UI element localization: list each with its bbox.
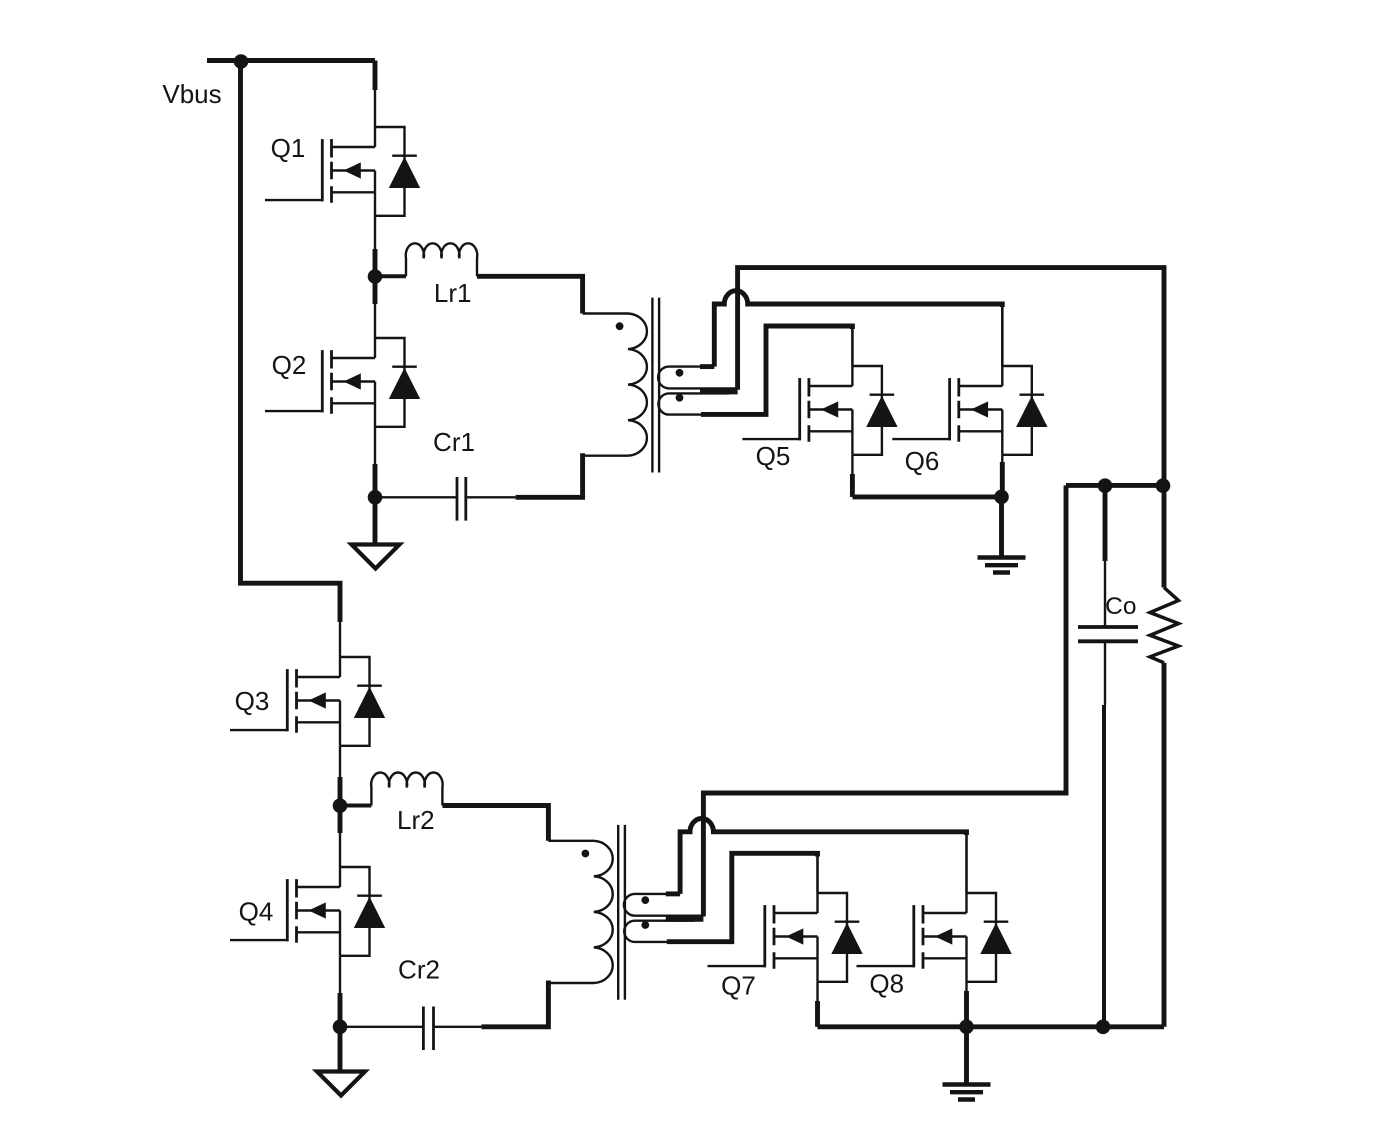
- wire Q1 drain feed: [373, 61, 378, 91]
- capacitor Cr2: [423, 1007, 433, 1051]
- node T2 primary dot: [582, 850, 590, 858]
- wire T1 center tap stub: [700, 389, 738, 394]
- svg-text:Lr1: Lr1: [434, 278, 472, 308]
- ground secondary 1: [999, 497, 1004, 556]
- node output minus rail ground junction: [959, 1020, 974, 1035]
- capacitor Cr1: [457, 477, 466, 521]
- svg-text:Cr1: Cr1: [433, 427, 475, 457]
- wire Vbus top rail: [207, 58, 375, 63]
- wire Lr2 to T2 primary top: [442, 806, 548, 841]
- inductor Lr2: [340, 804, 371, 808]
- transistor Q2: [265, 338, 420, 427]
- ground phase2: [338, 1027, 343, 1072]
- wire Q3 source to phase2 midpoint: [339, 746, 341, 867]
- node output minus rail Co junction: [1096, 1020, 1111, 1035]
- transistor Q7: [708, 893, 863, 982]
- node secondary rail 1 junction: [994, 490, 1009, 505]
- svg-text:Q5: Q5: [756, 441, 791, 471]
- svg-text:Cr2: Cr2: [398, 955, 440, 985]
- node phase1 midpoint: [368, 269, 383, 284]
- transformer T2 core: [618, 825, 625, 1000]
- wire T1 center tap to output plus rail: [738, 268, 1164, 486]
- wire T2 top terminal to Q8 drain (with hop): [680, 818, 966, 893]
- resistor load: [1162, 485, 1167, 587]
- wire T2 secondary top stub: [666, 891, 680, 896]
- transformer T2 secondary winding lower: [624, 921, 732, 942]
- node Vbus junction: [234, 54, 249, 69]
- wire Vbus left vertical down to lower half-bridge: [241, 61, 341, 623]
- capacitor Co: [1103, 485, 1108, 561]
- transformer T1 core: [652, 298, 659, 473]
- svg-text:Q2: Q2: [272, 350, 307, 380]
- wire Q2 source down to ground junction: [374, 427, 376, 498]
- node output rail load tap: [1156, 478, 1171, 493]
- node T2 secondary dot lower: [641, 921, 649, 929]
- node phase2 midpoint: [333, 798, 348, 813]
- svg-text:Q1: Q1: [271, 133, 306, 163]
- svg-text:Co: Co: [1105, 593, 1136, 620]
- wire T1 secondary top stub: [700, 364, 714, 369]
- svg-text:Q7: Q7: [721, 971, 756, 1001]
- wire output rail down to T2 center tap: [703, 485, 1066, 916]
- wire Q7 source to output minus rail: [816, 982, 818, 1027]
- ground phase1: [373, 497, 378, 546]
- transistor Q3: [230, 657, 385, 746]
- wire Q6 source stub: [1001, 455, 1003, 486]
- node T2 secondary dot upper: [641, 896, 649, 904]
- wire T2 primary bottom to Cr2: [481, 981, 548, 1027]
- wire Q5 source to secondary ground rail: [851, 455, 853, 497]
- node T1 primary dot: [616, 322, 624, 330]
- wire T1 primary bottom to Cr1: [516, 453, 583, 497]
- transformer T1 primary winding: [583, 314, 647, 456]
- wire Q8 source stub: [965, 982, 967, 1015]
- transistor Q4: [230, 867, 385, 956]
- ground secondary 2: [964, 1027, 969, 1084]
- svg-text:Q6: Q6: [905, 446, 940, 476]
- inductor Lr1: [375, 274, 406, 278]
- wire Cr1 to Q2 source junction: [375, 496, 457, 498]
- svg-text:Vbus: Vbus: [162, 79, 221, 109]
- node Cr1 junction: [368, 490, 383, 505]
- wire secondary ground rail 1: [852, 494, 1001, 499]
- svg-text:Q8: Q8: [869, 969, 904, 999]
- wire Q3 drain feed: [339, 622, 341, 657]
- transformer T1 secondary winding upper: [658, 367, 738, 389]
- wire Cr2 to Q4 source junction: [340, 1026, 423, 1028]
- wire output plus rail: [1066, 483, 1164, 488]
- wire T1 bottom terminal to Q5 drain: [701, 326, 852, 414]
- transistor Q6: [892, 366, 1047, 455]
- wire T1 top terminal to Q6 drain (with hop): [714, 291, 1002, 367]
- transformer T2 secondary winding upper: [624, 894, 704, 916]
- transformer T2 primary winding: [548, 841, 612, 983]
- node T1 secondary dot lower: [676, 394, 684, 402]
- transformer T1 secondary winding lower: [658, 393, 766, 414]
- svg-text:Q4: Q4: [239, 897, 274, 927]
- wire T2 bottom terminal to Q7 drain: [667, 853, 818, 941]
- wire Lr1 to T1 primary top: [477, 276, 583, 313]
- transistor Q5: [742, 366, 897, 455]
- node T1 secondary dot upper: [676, 369, 684, 377]
- transistor Q8: [857, 893, 1012, 982]
- wire T2 center tap stub: [666, 916, 704, 921]
- svg-text:Lr2: Lr2: [397, 805, 435, 835]
- node output rail Co tap: [1098, 478, 1113, 493]
- wire Q1 source to midpoint node: [374, 216, 376, 338]
- wire Q4 source down to ground junction: [339, 956, 341, 1027]
- wire output minus rail: [818, 1024, 1165, 1029]
- transistor Q1: [265, 127, 420, 216]
- svg-text:Q3: Q3: [235, 686, 270, 716]
- node Cr2 junction: [333, 1020, 348, 1035]
